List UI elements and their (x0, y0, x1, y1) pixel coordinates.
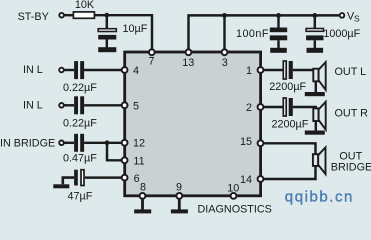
op-amp U1 (power amplifier IC body) (125, 52, 261, 196)
svg-text:10K: 10K (75, 0, 95, 11)
wire 0.22uF to pin 4 (84, 69, 123, 71)
svg-text:OUT R: OUT R (335, 108, 369, 120)
wire pin 2 to 2200uF (262, 106, 283, 108)
speaker OUT L (313, 62, 325, 92)
ground bar at 47uF (53, 184, 69, 188)
pin 5 (122, 100, 139, 112)
terminal Vs (340, 13, 345, 18)
capacitor 2200uF (OUT L) (283, 61, 293, 79)
capacitor 0.22uF (lower input) (74, 96, 84, 114)
pin 12 (122, 138, 145, 150)
svg-text:7: 7 (148, 56, 154, 68)
label OUT L (335, 66, 367, 78)
label Vs (347, 11, 360, 24)
svg-text:2200µF: 2200µF (269, 81, 306, 93)
capacitor 10uF (polarized, ST-BY filter) (98, 29, 116, 48)
pin 8 (140, 181, 146, 198)
svg-text:2200µF: 2200µF (272, 118, 309, 130)
label IN L (lower) (23, 99, 43, 111)
node junction 1000uF tap (312, 13, 317, 18)
label OUT BRIDGE (331, 151, 371, 174)
svg-text:IN L: IN L (23, 99, 43, 111)
svg-text:10µF: 10µF (123, 23, 148, 35)
wire pin 9 to ground (178, 196, 181, 210)
svg-text:0.22µF: 0.22µF (63, 82, 97, 94)
wire ST-BY terminal to resistor (63, 14, 74, 16)
svg-text:3: 3 (222, 57, 228, 69)
terminal IN BRIDGE (59, 141, 64, 146)
pin 6 (122, 173, 140, 185)
pin 9 (176, 181, 182, 198)
value label 0.22uF (upper) (63, 82, 97, 94)
node junction bridge input (105, 140, 110, 145)
ground bar pin 8 (134, 209, 151, 213)
ground bar under 1000uF (307, 48, 324, 53)
svg-text:15: 15 (240, 136, 252, 148)
ground bar under 10uF (98, 47, 116, 52)
watermark qqibb.cn (285, 189, 354, 206)
wire Vs rail with risers to pins 13 and 3 (189, 15, 343, 50)
svg-text:6: 6 (134, 173, 140, 185)
svg-text:1: 1 (246, 65, 252, 77)
svg-text:9: 9 (176, 181, 182, 193)
pin 3 (222, 49, 228, 68)
svg-text:10: 10 (227, 183, 239, 195)
capacitor 2200uF (OUT R) (283, 98, 293, 116)
capacitor 0.47uF (bridge input) (74, 134, 84, 152)
svg-text:14: 14 (240, 174, 252, 186)
value label 0.47uF (63, 152, 97, 164)
resistor 10K (73, 12, 94, 18)
value label 47uF (68, 190, 93, 202)
pin 7 (148, 49, 154, 67)
label DIAGNOSTICS (198, 204, 272, 216)
wire bridge speaker bottom to pin 14 (262, 166, 316, 179)
wire 0.22uF to pin 5 (84, 104, 123, 106)
wire pin 15 to bridge speaker top (262, 143, 316, 154)
pin 15 (240, 136, 263, 148)
wire 47uF to pin 6 (85, 176, 123, 178)
node junction at 10uF tap (104, 13, 109, 18)
svg-text:0.47µF: 0.47µF (63, 152, 97, 164)
svg-text:ST-BY: ST-BY (18, 11, 49, 23)
pin 11 (122, 155, 145, 167)
capacitor 100nF (supply bypass) (270, 15, 287, 48)
speaker OUT R (313, 102, 325, 131)
terminal IN L (lower) (59, 103, 64, 108)
wire IN BRIDGE terminal to 0.47uF (64, 142, 74, 144)
pin 13 (182, 49, 194, 68)
svg-text:100nF: 100nF (236, 28, 269, 40)
wire pin 8 to ground (141, 196, 144, 210)
ground bar pin 9 (171, 209, 188, 213)
pin 2 (246, 102, 263, 114)
capacitor 1000uF (supply electrolytic) (306, 15, 323, 48)
svg-text:12: 12 (133, 138, 145, 150)
wire resistor to pin 7 riser (94, 15, 152, 50)
pin 10 (227, 183, 239, 199)
ground bar speaker OUT R (305, 131, 325, 135)
svg-text:IN BRIDGE: IN BRIDGE (0, 137, 55, 149)
wire 2200uF to speaker OUT R (293, 107, 316, 109)
ground bar speaker OUT L (305, 92, 325, 96)
value label 100nF (236, 28, 269, 40)
wire IN L terminal to 0.22uF lower (64, 104, 74, 106)
node junction pin 3 riser (222, 13, 227, 18)
svg-text:qqibb.cn: qqibb.cn (285, 189, 354, 206)
svg-text:DIAGNOSTICS: DIAGNOSTICS (198, 204, 272, 216)
wire 0.47uF to pin 12 (84, 142, 123, 144)
svg-text:2: 2 (246, 102, 252, 114)
wire junction down to 10uF (106, 15, 108, 28)
speaker OUT BRIDGE (313, 147, 326, 174)
label IN L (upper) (23, 64, 43, 76)
svg-text:4: 4 (133, 65, 139, 77)
svg-text:IN L: IN L (23, 64, 43, 76)
value label 2200uF (OUT L) (269, 81, 306, 93)
pin 14 (240, 174, 263, 186)
svg-text:BRIDGE: BRIDGE (331, 162, 371, 174)
wire ground to 47uF (63, 178, 74, 185)
capacitor 0.22uF (upper input) (74, 61, 84, 79)
svg-text:1000µF: 1000µF (323, 28, 360, 40)
svg-text:47µF: 47µF (68, 190, 93, 202)
svg-text:11: 11 (133, 155, 144, 167)
capacitor 47uF (polarized, pin 6) (74, 170, 84, 186)
label OUT R (335, 108, 369, 120)
svg-text:8: 8 (140, 181, 146, 193)
wire 2200uF to speaker OUT L (293, 69, 314, 71)
svg-text:13: 13 (182, 57, 194, 69)
terminal IN L (upper) (59, 68, 64, 73)
value label 10K (75, 0, 95, 11)
value label 10uF (123, 23, 148, 35)
label IN BRIDGE (0, 137, 55, 149)
terminal ST-BY (59, 13, 64, 18)
value label 1000uF (323, 28, 360, 40)
label ST-BY (18, 11, 49, 23)
svg-text:0.22µF: 0.22µF (63, 117, 97, 129)
value label 2200uF (OUT R) (272, 118, 309, 130)
wire IN L terminal to 0.22uF (64, 69, 74, 71)
ground bar under 100nF (270, 48, 287, 53)
svg-text:5: 5 (133, 100, 139, 112)
pin 1 (246, 65, 263, 77)
wire junction down to pin 11 (107, 143, 123, 161)
svg-text:OUT L: OUT L (335, 66, 367, 78)
value label 0.22uF (lower) (63, 117, 97, 129)
svg-text:S: S (354, 13, 360, 23)
wire pin 1 to 2200uF (262, 69, 283, 71)
node junction 100nF tap (276, 13, 281, 18)
pin 4 (122, 65, 139, 77)
